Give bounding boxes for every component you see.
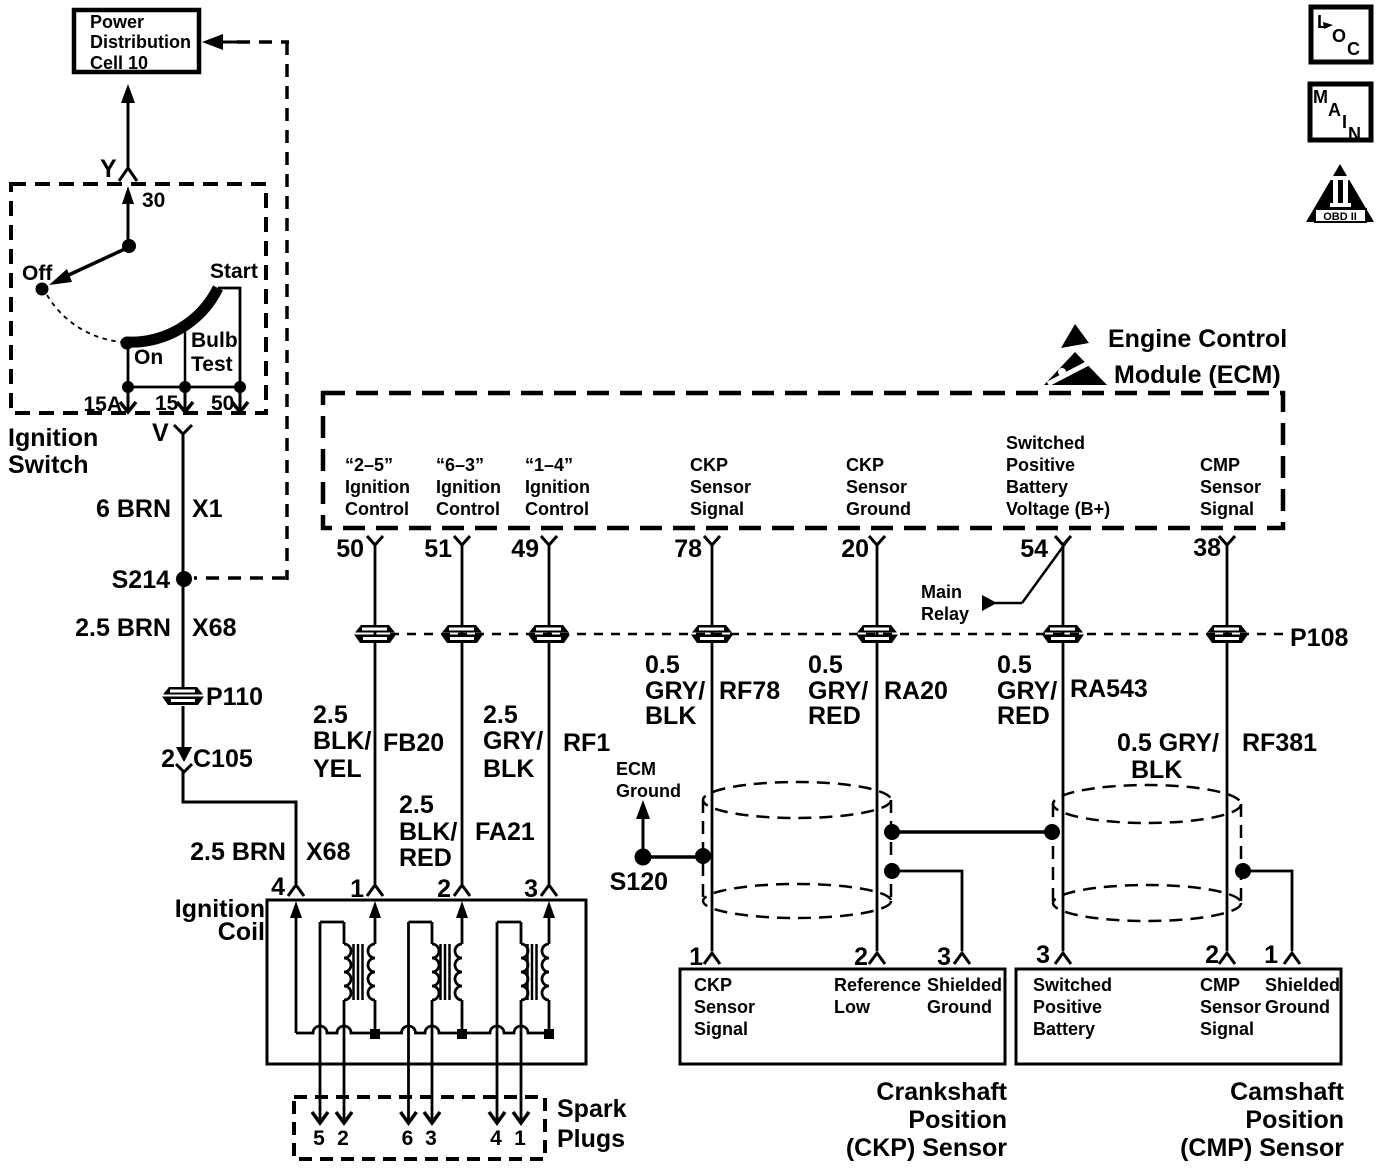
core 1 bbox=[354, 944, 363, 1000]
svg-text:50: 50 bbox=[336, 535, 364, 563]
inline connector lens on wire 49 bbox=[528, 625, 570, 643]
svg-text:2.5: 2.5 bbox=[399, 791, 434, 819]
svg-text:GRY/: GRY/ bbox=[808, 677, 868, 705]
svg-text:15A: 15A bbox=[83, 393, 122, 416]
primary winding 3 bbox=[542, 944, 549, 1000]
CMP sensor box bbox=[1016, 969, 1341, 1064]
svg-text:Switch: Switch bbox=[8, 451, 89, 479]
svg-text:“6–3”: “6–3” bbox=[436, 455, 484, 475]
svg-text:Bulb: Bulb bbox=[191, 329, 238, 352]
svg-text:Control: Control bbox=[525, 499, 589, 519]
svg-text:Main: Main bbox=[921, 582, 962, 602]
svg-text:4: 4 bbox=[490, 1127, 502, 1150]
bus junction square 3 bbox=[544, 1029, 554, 1039]
svg-text:CKP: CKP bbox=[846, 455, 884, 475]
splice S214 bbox=[176, 571, 192, 587]
svg-text:3: 3 bbox=[425, 1127, 437, 1150]
node CKP shield ground tap bbox=[884, 863, 900, 879]
Crankshaft Position (CKP) Sensor label bbox=[846, 1078, 1008, 1162]
primary feed arrow pin 1 bbox=[369, 901, 381, 918]
svg-text:Ground: Ground bbox=[846, 499, 911, 519]
Power Distribution Cell 10 box bbox=[74, 10, 199, 73]
splice S120 bbox=[635, 849, 652, 866]
svg-text:38: 38 bbox=[1193, 534, 1221, 562]
svg-text:Ignition: Ignition bbox=[525, 477, 590, 497]
ECM pin 49 description bbox=[525, 455, 590, 519]
Start contact lead bbox=[218, 288, 240, 387]
svg-text:6 BRN: 6 BRN bbox=[96, 495, 171, 523]
svg-text:Low: Low bbox=[834, 997, 871, 1017]
svg-text:A: A bbox=[1328, 100, 1341, 120]
svg-text:5: 5 bbox=[313, 1127, 325, 1150]
ESD warning symbol bbox=[1044, 324, 1107, 385]
svg-text:Ignition: Ignition bbox=[436, 477, 501, 497]
svg-text:I: I bbox=[1342, 112, 1347, 132]
svg-text:YEL: YEL bbox=[313, 755, 362, 783]
svg-text:Ground: Ground bbox=[927, 997, 992, 1017]
Off contact node bbox=[36, 283, 49, 296]
svg-text:CMP: CMP bbox=[1200, 975, 1240, 995]
svg-text:ECM: ECM bbox=[616, 759, 656, 779]
dashed power feed path bbox=[237, 40, 289, 44]
svg-text:0.5: 0.5 bbox=[997, 651, 1032, 679]
svg-text:GRY/: GRY/ bbox=[645, 677, 705, 705]
svg-text:Reference: Reference bbox=[834, 975, 921, 995]
svg-text:1: 1 bbox=[1264, 941, 1278, 969]
ignition coil box bbox=[267, 900, 586, 1064]
svg-text:51: 51 bbox=[424, 535, 452, 563]
svg-text:Signal: Signal bbox=[694, 1019, 748, 1039]
svg-text:1: 1 bbox=[350, 875, 364, 903]
svg-text:49: 49 bbox=[511, 535, 539, 563]
CMP pin 1 label bbox=[1265, 975, 1340, 1017]
svg-text:RA543: RA543 bbox=[1070, 675, 1148, 703]
CKP pin 2 label bbox=[834, 975, 921, 1017]
svg-text:P110: P110 bbox=[206, 683, 263, 711]
Main Relay reference bbox=[921, 537, 1070, 624]
inline connector lens on wire 38 bbox=[1206, 625, 1248, 643]
spark plug numbers bbox=[313, 1127, 526, 1150]
svg-text:Y: Y bbox=[100, 155, 117, 183]
svg-text:Control: Control bbox=[436, 499, 500, 519]
svg-text:30: 30 bbox=[142, 189, 165, 212]
secondary winding 2 bbox=[409, 922, 440, 1121]
svg-text:Ignition: Ignition bbox=[8, 424, 98, 452]
inline connector lens on wire 51 bbox=[441, 625, 483, 643]
svg-text:CKP: CKP bbox=[694, 975, 732, 995]
svg-text:2: 2 bbox=[1205, 941, 1219, 969]
svg-text:Sensor: Sensor bbox=[690, 477, 751, 497]
CMP pin 2 label bbox=[1200, 975, 1261, 1039]
svg-text:2.5: 2.5 bbox=[313, 701, 348, 729]
wire to CMP pin 1 bbox=[1243, 871, 1292, 951]
svg-text:Battery: Battery bbox=[1006, 477, 1068, 497]
wire S120 to shield bbox=[643, 855, 703, 859]
On contact lead bbox=[127, 344, 130, 387]
spark plugs dashed box bbox=[294, 1097, 545, 1159]
svg-text:FB20: FB20 bbox=[383, 729, 444, 757]
junction dots on bus bbox=[122, 381, 134, 393]
svg-text:2.5 BRN: 2.5 BRN bbox=[75, 614, 171, 642]
wire V to S214 bbox=[182, 434, 185, 572]
svg-text:RF78: RF78 bbox=[719, 677, 780, 705]
svg-text:1: 1 bbox=[689, 943, 703, 971]
svg-text:0.5: 0.5 bbox=[645, 651, 680, 679]
wire ECM 50 to coil 1 bbox=[374, 545, 377, 884]
ECM pin 78 description bbox=[690, 455, 751, 519]
wire C105 to ignition coil pin 4 bbox=[183, 772, 296, 884]
svg-text:3: 3 bbox=[524, 875, 538, 903]
svg-text:Cell 10: Cell 10 bbox=[90, 53, 148, 73]
ECM Ground reference bbox=[616, 759, 681, 850]
wire ECM 78 to CKP 1 bbox=[711, 545, 714, 951]
svg-text:RED: RED bbox=[997, 702, 1050, 730]
thick contact arc On to Start bbox=[126, 288, 218, 342]
svg-text:BLK: BLK bbox=[645, 702, 696, 730]
svg-text:0.5 GRY/: 0.5 GRY/ bbox=[1117, 729, 1219, 757]
svg-text:Off: Off bbox=[22, 262, 53, 285]
bus junction square 2 bbox=[457, 1029, 467, 1039]
Camshaft Position (CMP) Sensor label bbox=[1180, 1078, 1345, 1162]
svg-text:V: V bbox=[152, 419, 169, 447]
primary feed arrow pin 2 bbox=[456, 901, 468, 918]
svg-text:2.5 BRN: 2.5 BRN bbox=[190, 838, 286, 866]
B+ bus with hops bbox=[296, 1026, 550, 1033]
svg-text:C105: C105 bbox=[193, 745, 253, 773]
svg-text:50: 50 bbox=[211, 392, 234, 415]
svg-text:Ground: Ground bbox=[1265, 997, 1330, 1017]
svg-text:Control: Control bbox=[345, 499, 409, 519]
output arrow 15 bbox=[184, 387, 187, 409]
svg-text:O: O bbox=[1332, 26, 1346, 46]
svg-text:Sensor: Sensor bbox=[694, 997, 755, 1017]
inline connector P110 bbox=[162, 687, 204, 705]
icon MAIN box bbox=[1310, 84, 1371, 144]
inline connector lens on wire 54 bbox=[1042, 625, 1084, 643]
svg-text:0.5: 0.5 bbox=[808, 651, 843, 679]
svg-text:2: 2 bbox=[854, 943, 868, 971]
ECM pin 38 description bbox=[1200, 455, 1261, 519]
svg-text:CMP: CMP bbox=[1200, 455, 1240, 475]
switch lever arm bbox=[60, 248, 127, 279]
svg-text:RA20: RA20 bbox=[884, 677, 948, 705]
svg-text:GRY/: GRY/ bbox=[997, 677, 1057, 705]
svg-text:Signal: Signal bbox=[1200, 1019, 1254, 1039]
svg-text:Distribution: Distribution bbox=[90, 32, 191, 52]
svg-text:Start: Start bbox=[210, 260, 258, 283]
wire to CKP pin 3 bbox=[892, 871, 962, 951]
wire arrow up to power box bbox=[121, 84, 135, 103]
wire ECM 51 to coil 2 bbox=[461, 545, 464, 884]
svg-text:Battery: Battery bbox=[1033, 1019, 1095, 1039]
svg-text:FA21: FA21 bbox=[475, 818, 535, 846]
wire S214 to P110 bbox=[182, 585, 185, 687]
ECM pin 54 description bbox=[1006, 433, 1110, 519]
inline connector lens on wire 50 bbox=[354, 625, 396, 643]
ECM dashed box bbox=[323, 393, 1283, 528]
wire ECM 49 to coil 3 bbox=[548, 545, 551, 884]
svg-text:X1: X1 bbox=[192, 495, 223, 523]
svg-text:78: 78 bbox=[674, 535, 702, 563]
svg-text:1: 1 bbox=[514, 1127, 526, 1150]
CMP pin 3 label bbox=[1033, 975, 1112, 1039]
CKP pin 3 label bbox=[927, 975, 1002, 1017]
svg-text:“2–5”: “2–5” bbox=[345, 455, 393, 475]
svg-text:Switched: Switched bbox=[1006, 433, 1085, 453]
svg-text:S120: S120 bbox=[610, 868, 668, 896]
On contact node bbox=[121, 337, 134, 350]
wire ECM 54 to CMP 3 bbox=[1062, 545, 1065, 951]
svg-text:CKP: CKP bbox=[690, 455, 728, 475]
svg-text:RED: RED bbox=[808, 702, 861, 730]
svg-text:RF381: RF381 bbox=[1242, 729, 1317, 757]
core 3 bbox=[528, 944, 537, 1000]
svg-text:Shielded: Shielded bbox=[927, 975, 1002, 995]
svg-text:2.5: 2.5 bbox=[483, 701, 518, 729]
svg-text:Power: Power bbox=[90, 12, 144, 32]
svg-text:BLK/: BLK/ bbox=[399, 818, 457, 846]
svg-text:Voltage (B+): Voltage (B+) bbox=[1006, 499, 1110, 519]
bus junction square 1 bbox=[370, 1029, 380, 1039]
svg-text:(CMP) Sensor: (CMP) Sensor bbox=[1180, 1134, 1344, 1162]
wire shield-to-shield bbox=[892, 830, 1052, 834]
svg-text:RED: RED bbox=[399, 844, 452, 872]
svg-text:2: 2 bbox=[337, 1127, 349, 1150]
svg-text:Sensor: Sensor bbox=[1200, 477, 1261, 497]
svg-text:(CKP) Sensor: (CKP) Sensor bbox=[846, 1134, 1007, 1162]
icon OBD II triangle bbox=[1306, 164, 1374, 223]
svg-text:6: 6 bbox=[402, 1127, 414, 1150]
svg-text:Sensor: Sensor bbox=[846, 477, 907, 497]
svg-text:M: M bbox=[1313, 87, 1328, 107]
svg-text:GRY/: GRY/ bbox=[483, 727, 543, 755]
svg-text:X68: X68 bbox=[306, 838, 351, 866]
svg-text:Relay: Relay bbox=[921, 604, 969, 624]
svg-text:Signal: Signal bbox=[1200, 499, 1254, 519]
svg-text:Coil: Coil bbox=[218, 918, 265, 946]
svg-text:OBD II: OBD II bbox=[1323, 211, 1357, 223]
svg-text:Signal: Signal bbox=[690, 499, 744, 519]
svg-text:20: 20 bbox=[841, 535, 869, 563]
inline connector lens on wire 78 bbox=[691, 625, 733, 643]
ECM pin 50 description bbox=[345, 455, 410, 519]
ECM pin 51 description bbox=[436, 455, 501, 519]
wire ECM 38 to CMP 2 bbox=[1226, 545, 1229, 951]
secondary winding 3 bbox=[497, 922, 528, 1121]
svg-text:L: L bbox=[1317, 12, 1328, 32]
svg-text:Position: Position bbox=[1245, 1106, 1344, 1134]
svg-text:Ignition: Ignition bbox=[345, 477, 410, 497]
primary winding 1 bbox=[368, 944, 375, 1000]
Bulb Test contact lead bbox=[184, 325, 187, 387]
svg-text:Crankshaft: Crankshaft bbox=[876, 1078, 1007, 1106]
svg-text:BLK/: BLK/ bbox=[313, 727, 371, 755]
svg-text:S214: S214 bbox=[112, 566, 170, 594]
spark plug arrowheads bbox=[312, 1112, 529, 1123]
svg-text:“1–4”: “1–4” bbox=[525, 455, 573, 475]
connector P108 dashed line bbox=[390, 633, 1285, 636]
svg-text:Sensor: Sensor bbox=[1200, 997, 1261, 1017]
svg-text:RF1: RF1 bbox=[563, 729, 610, 757]
svg-text:Plugs: Plugs bbox=[557, 1125, 625, 1153]
svg-text:Switched: Switched bbox=[1033, 975, 1112, 995]
node on CKP shield bbox=[695, 848, 711, 864]
ignition switch dashed box bbox=[11, 184, 266, 413]
dashed travel arc bbox=[47, 295, 122, 342]
svg-text:P108: P108 bbox=[1290, 624, 1348, 652]
CKP pin 1 label bbox=[694, 975, 755, 1039]
svg-text:Ground: Ground bbox=[616, 781, 681, 801]
connector C105 pin 2 bbox=[176, 747, 192, 762]
svg-text:N: N bbox=[1348, 124, 1361, 144]
bus inside switch bbox=[126, 386, 242, 389]
fuse output arrow 15A bbox=[127, 387, 130, 409]
svg-text:Camshaft: Camshaft bbox=[1230, 1078, 1345, 1106]
node CMP shield ground tap bbox=[1235, 863, 1251, 879]
svg-text:Positive: Positive bbox=[1033, 997, 1102, 1017]
CKP shield cylinder bbox=[703, 782, 891, 918]
svg-text:C: C bbox=[1347, 39, 1360, 59]
svg-text:Module (ECM): Module (ECM) bbox=[1114, 361, 1281, 389]
switch pivot node bbox=[122, 239, 136, 253]
svg-text:Positive: Positive bbox=[1006, 455, 1075, 475]
node CKP shield to drain bbox=[884, 824, 900, 840]
CKP sensor box bbox=[680, 969, 1005, 1064]
wire ECM 20 to CKP 2 bbox=[876, 545, 879, 951]
svg-text:2: 2 bbox=[437, 875, 451, 903]
arrow into power box (left pointing) bbox=[202, 34, 223, 50]
coil B+ feed arrow pin 4 bbox=[290, 901, 302, 918]
svg-text:BLK: BLK bbox=[483, 755, 534, 783]
secondary winding 1 bbox=[320, 922, 351, 1121]
node CMP shield left bbox=[1044, 824, 1060, 840]
svg-text:4: 4 bbox=[271, 873, 285, 901]
svg-text:Position: Position bbox=[908, 1106, 1007, 1134]
svg-text:2: 2 bbox=[161, 745, 175, 773]
primary winding 2 bbox=[455, 944, 462, 1000]
ECM pin 20 description bbox=[846, 455, 911, 519]
CMP shield cylinder bbox=[1053, 785, 1241, 921]
svg-text:On: On bbox=[134, 346, 163, 369]
svg-text:3: 3 bbox=[937, 943, 951, 971]
svg-text:X68: X68 bbox=[192, 614, 237, 642]
svg-text:Test: Test bbox=[191, 353, 233, 376]
svg-text:54: 54 bbox=[1020, 535, 1048, 563]
svg-text:Engine Control: Engine Control bbox=[1108, 325, 1287, 353]
svg-text:Shielded: Shielded bbox=[1265, 975, 1340, 995]
inline connector lens on wire 20 bbox=[856, 625, 898, 643]
svg-text:BLK: BLK bbox=[1131, 756, 1182, 784]
core 2 bbox=[441, 944, 450, 1000]
svg-text:15: 15 bbox=[155, 392, 179, 415]
wire P110 to C105 bbox=[182, 706, 185, 749]
svg-text:Spark: Spark bbox=[557, 1095, 627, 1123]
wire arrow up to terminal 30 bbox=[122, 186, 134, 204]
output arrow 50 bbox=[239, 387, 242, 409]
svg-text:3: 3 bbox=[1036, 941, 1050, 969]
primary feed arrow pin 3 bbox=[543, 901, 555, 918]
icon LOC box bbox=[1311, 7, 1371, 62]
